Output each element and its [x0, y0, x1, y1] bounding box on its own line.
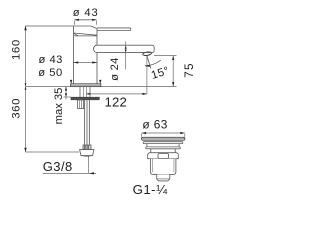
drain body — [150, 159, 176, 175]
15 degree tilted line — [147, 55, 151, 69]
shank lines — [79, 87, 81, 98]
svg-text:ø 63: ø 63 — [142, 118, 167, 132]
svg-text:360: 360 — [10, 98, 22, 119]
extension line 360 bottom — [26, 151, 80, 153]
spout — [94, 45, 155, 52]
G3/8 leader underline — [43, 172, 96, 174]
dimension max 35 — [65, 87, 67, 100]
deck line — [26, 86, 177, 88]
arc arrowhead — [145, 65, 150, 67]
dimension o43 top — [75, 19, 97, 21]
lever handle bar — [97, 28, 131, 31]
svg-text:G1-¼: G1-¼ — [133, 182, 168, 197]
drain disc 3 — [146, 147, 181, 149]
hose rib band — [83, 145, 91, 150]
drain connector — [146, 144, 148, 147]
dimension o43 mid — [74, 62, 98, 64]
drain flange — [142, 137, 185, 140]
body right edge — [96, 29, 98, 84]
dimension o24 — [125, 42, 127, 70]
handle underside diagonal — [74, 33, 98, 35]
dimension o63 — [142, 132, 185, 134]
aerator — [143, 51, 152, 56]
cap bottom joint — [74, 35, 98, 37]
hose end nut — [80, 150, 94, 156]
svg-text:ø 50: ø 50 — [38, 67, 62, 79]
o50 arrows — [70, 80, 72, 84]
drain tail — [157, 174, 170, 181]
dimension 75 — [172, 56, 174, 87]
base flange — [71, 84, 101, 87]
svg-text:ø 43: ø 43 — [39, 54, 63, 66]
dimension 122 — [86, 93, 147, 95]
supply hose — [84, 100, 86, 145]
G3/8 leader arrow — [89, 172, 94, 174]
body left edge — [73, 26, 75, 84]
svg-text:max 35: max 35 — [53, 88, 65, 125]
overflow window — [158, 154, 169, 159]
svg-text:122: 122 — [104, 94, 127, 109]
drain neck — [150, 149, 152, 153]
arrow 160 top — [24, 26, 26, 31]
15 degree arc — [145, 60, 161, 66]
vertical reference line from aerator — [146, 55, 148, 94]
drain disc 2 — [143, 142, 183, 144]
arrow 360 bottom — [24, 148, 26, 152]
svg-text:ø 24: ø 24 — [109, 57, 121, 81]
dimension 160 vertical line — [25, 26, 27, 152]
svg-text:160: 160 — [10, 39, 22, 60]
handle notch — [74, 33, 79, 36]
mounting washer — [71, 97, 99, 100]
svg-text:G3/8: G3/8 — [43, 159, 73, 174]
drain band — [148, 153, 179, 159]
svg-text:ø 43: ø 43 — [73, 7, 99, 19]
svg-text:75: 75 — [182, 62, 196, 78]
nut box — [78, 100, 84, 109]
G3/8 leader vertical — [88, 157, 90, 174]
arrow 160 bottom / 360 top pair — [25, 83, 27, 86]
faucet cap top line — [26, 26, 98, 29]
